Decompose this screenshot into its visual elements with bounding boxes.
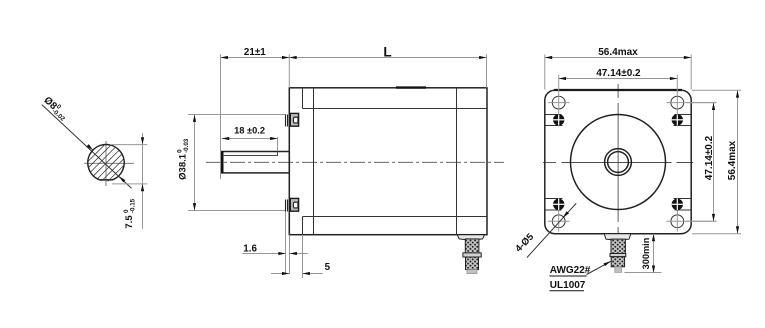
svg-text:47.14±0.2: 47.14±0.2	[704, 135, 715, 180]
svg-text:300min: 300min	[641, 237, 651, 269]
svg-text:AWG22#: AWG22#	[550, 265, 591, 276]
svg-text:-0.03: -0.03	[183, 138, 190, 153]
svg-text:-0.15: -0.15	[130, 198, 137, 213]
svg-text:47.14±0.2: 47.14±0.2	[596, 68, 641, 79]
svg-text:7.5: 7.5	[124, 215, 135, 229]
svg-text:56.4max: 56.4max	[727, 140, 738, 180]
svg-text:L: L	[383, 45, 391, 60]
svg-text:21±1: 21±1	[244, 47, 266, 58]
svg-text:18 ±0.2: 18 ±0.2	[234, 125, 265, 135]
svg-text:UL1007: UL1007	[550, 280, 586, 291]
svg-text:1.6: 1.6	[243, 243, 257, 254]
svg-text:56.4max: 56.4max	[598, 47, 638, 58]
svg-text:5: 5	[325, 262, 331, 273]
svg-text:Ø38.1: Ø38.1	[178, 153, 189, 180]
